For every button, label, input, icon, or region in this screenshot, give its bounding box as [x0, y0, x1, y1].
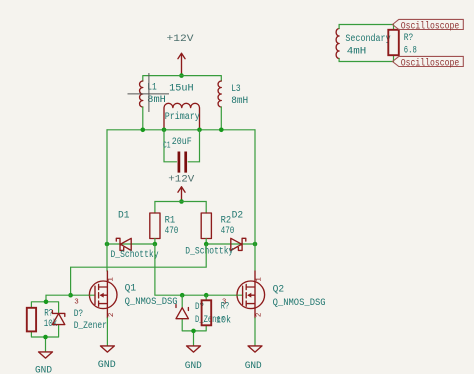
wire cross A to Q2 gate: [155, 244, 238, 295]
wire top rail: [143, 76, 222, 81]
svg-text:D_Schottky: D_Schottky: [111, 249, 159, 261]
svg-text:+12V: +12V: [168, 173, 195, 185]
inductor L1: [140, 81, 166, 107]
svg-text:3: 3: [74, 298, 79, 306]
svg-text:Secondary: Secondary: [345, 33, 390, 45]
wire R1 bottom: [154, 239, 156, 245]
wire capacitor loop: [164, 130, 200, 162]
junction Q1 gate node: [68, 293, 73, 298]
diode D1: [111, 211, 159, 261]
power symbol +12V mid: [168, 173, 195, 200]
wire Q2 source: [254, 318, 256, 346]
svg-text:C1: C1: [163, 140, 171, 150]
wire diode row left: [107, 243, 155, 245]
svg-text:D2: D2: [232, 210, 244, 221]
junction primary left: [162, 128, 167, 133]
inductor Secondary: [336, 29, 390, 59]
svg-text:2: 2: [255, 313, 263, 318]
svg-text:15uH: 15uH: [169, 84, 194, 95]
svg-text:Q_NMOS_DSG: Q_NMOS_DSG: [125, 297, 178, 308]
svg-text:10k: 10k: [216, 315, 231, 327]
global label Oscilloscope top: [393, 19, 464, 32]
wire diode row right: [206, 243, 255, 245]
svg-text:2: 2: [108, 313, 116, 318]
svg-text:1: 1: [108, 277, 116, 282]
junction +12V mid: [179, 199, 184, 204]
svg-text:Q1: Q1: [125, 284, 137, 295]
junction primary right: [197, 128, 202, 133]
svg-text:D_Zener: D_Zener: [74, 321, 107, 332]
svg-text:Oscilloscope: Oscilloscope: [401, 57, 460, 69]
svg-text:D_Schottky: D_Schottky: [185, 245, 233, 257]
svg-text:4mH: 4mH: [347, 47, 367, 58]
svg-text:20uF: 20uF: [172, 137, 192, 148]
wire secondary top: [339, 25, 393, 30]
junction R?2 top: [204, 293, 209, 298]
wire secondary bottom: [339, 55, 393, 61]
ground Q2: [245, 346, 262, 372]
svg-text:D1: D1: [118, 211, 130, 222]
junction D2 right: [253, 242, 258, 247]
svg-text:6.8: 6.8: [404, 46, 417, 57]
transistor Q2: [222, 271, 326, 318]
junction L3/bus: [219, 128, 224, 133]
junction L1/bus: [141, 128, 146, 133]
wire left drain vertical: [106, 130, 108, 271]
cursor crosshair: [128, 73, 170, 112]
junction at +12V top: [179, 73, 184, 78]
wire left clamp feed: [31, 295, 70, 352]
svg-text:Primary: Primary: [165, 111, 200, 123]
resistor R1: [150, 213, 179, 239]
svg-text:8mH: 8mH: [147, 95, 166, 106]
zener D? left: [52, 309, 106, 332]
svg-text:470: 470: [165, 226, 179, 237]
svg-text:470: 470: [221, 226, 235, 237]
power symbol +12V top: [167, 33, 195, 74]
svg-text:R?: R?: [404, 33, 414, 44]
wire right drain vertical: [254, 130, 256, 271]
junction right clamp bottom: [191, 329, 196, 334]
resistor R? scope: [388, 30, 417, 57]
zener D? right: [176, 302, 225, 326]
svg-text:R1: R1: [165, 216, 176, 227]
junction D2/R2: [204, 242, 209, 247]
diode D2: [185, 210, 246, 257]
svg-text:1: 1: [255, 277, 263, 282]
svg-text:Oscilloscope: Oscilloscope: [401, 21, 460, 33]
transistor Q1: [74, 271, 177, 318]
wire R2 bottom: [205, 239, 207, 245]
capacitor C1: [163, 137, 192, 172]
resistor R? left: [27, 308, 58, 332]
wire right clamp: [182, 295, 206, 346]
svg-text:GND: GND: [98, 360, 116, 371]
svg-text:L3: L3: [231, 84, 241, 95]
wire main bus: [107, 129, 255, 131]
junction left clamp bottom: [43, 335, 48, 340]
svg-text:+12V: +12V: [167, 33, 195, 45]
wire cross B to Q1 gate: [71, 244, 207, 295]
wire L3 bottom: [220, 107, 222, 130]
transformer primary winding: [164, 103, 200, 129]
wire Q1 source: [106, 318, 108, 346]
inductor L3: [218, 81, 248, 107]
global label Oscilloscope bottom: [393, 56, 464, 69]
svg-text:Q_NMOS_DSG: Q_NMOS_DSG: [273, 298, 326, 309]
ground right clamp: [185, 346, 202, 372]
ground Q1: [98, 346, 116, 371]
svg-text:GND: GND: [245, 361, 262, 372]
svg-text:8mH: 8mH: [231, 96, 248, 107]
wire R1/R2 feed: [155, 202, 206, 214]
svg-text:GND: GND: [35, 365, 52, 374]
svg-text:R?: R?: [221, 302, 230, 313]
wire L1 bottom: [142, 107, 144, 130]
junction left clamp top: [44, 300, 49, 305]
svg-text:D?: D?: [195, 302, 204, 313]
resistor R2: [201, 213, 234, 239]
svg-text:Q2: Q2: [273, 285, 285, 296]
svg-text:R2: R2: [221, 216, 232, 227]
junction D1/R1: [153, 242, 158, 247]
junction zener2 top: [180, 293, 185, 298]
junction D1 left: [105, 242, 110, 247]
resistor R? right: [202, 300, 231, 326]
svg-text:GND: GND: [185, 361, 202, 372]
ground left clamp: [35, 352, 53, 374]
svg-text:D?: D?: [74, 309, 84, 320]
